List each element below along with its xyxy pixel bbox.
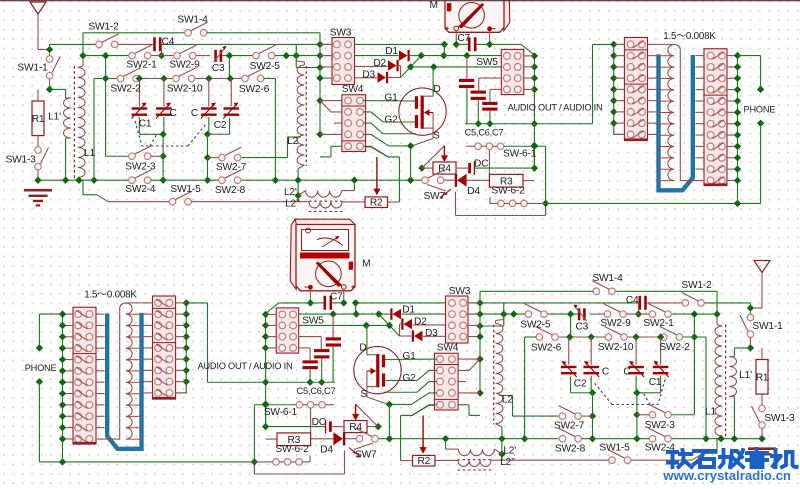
svg-text:SW1-4: SW1-4 <box>177 15 208 26</box>
svg-text:PHONE: PHONE <box>25 363 57 373</box>
svg-text:SW2-3: SW2-3 <box>125 162 156 173</box>
svg-text:L1': L1' <box>739 370 752 381</box>
svg-text:L2: L2 <box>502 394 513 405</box>
svg-text:SW1-5: SW1-5 <box>599 443 630 454</box>
svg-text:SW3: SW3 <box>330 27 352 38</box>
svg-text:SW1-1: SW1-1 <box>17 62 48 73</box>
svg-text:C2: C2 <box>214 120 227 131</box>
svg-text:SW1-3: SW1-3 <box>764 413 795 424</box>
svg-text:SW2-10: SW2-10 <box>167 83 203 94</box>
svg-text:SW2-8: SW2-8 <box>215 185 246 196</box>
svg-text:SW2-4: SW2-4 <box>125 184 156 195</box>
svg-text:D1: D1 <box>385 46 398 57</box>
svg-text:DC: DC <box>474 158 488 169</box>
svg-text:G1: G1 <box>402 351 416 362</box>
svg-text:SW-6-2: SW-6-2 <box>275 444 309 455</box>
svg-text:G2: G2 <box>384 115 398 126</box>
svg-text:C7: C7 <box>457 33 470 44</box>
svg-text:C2: C2 <box>574 378 587 389</box>
svg-text:C7: C7 <box>330 292 343 303</box>
svg-text:L1: L1 <box>84 148 95 159</box>
svg-text:SW2-7: SW2-7 <box>216 162 247 173</box>
svg-text:L1': L1' <box>48 112 61 123</box>
svg-text:C5,C6,C7: C5,C6,C7 <box>297 386 336 396</box>
svg-text:D2: D2 <box>414 317 427 328</box>
svg-text:SW2-10: SW2-10 <box>598 342 634 353</box>
svg-text:D2: D2 <box>373 58 386 69</box>
svg-text:SW1-2: SW1-2 <box>681 280 712 291</box>
svg-text:D3: D3 <box>425 328 438 339</box>
svg-text:C3: C3 <box>212 63 225 74</box>
svg-text:L2: L2 <box>287 136 298 147</box>
svg-text:SW1-3: SW1-3 <box>6 155 37 166</box>
svg-text:AUDIO OUT / AUDIO IN: AUDIO OUT / AUDIO IN <box>508 102 603 112</box>
svg-text:G2: G2 <box>402 373 416 384</box>
svg-text:SW4: SW4 <box>437 343 459 354</box>
svg-text:C3: C3 <box>575 322 588 333</box>
svg-text:S: S <box>360 389 367 400</box>
svg-text:L1: L1 <box>705 407 716 418</box>
svg-text:SW2-2: SW2-2 <box>110 83 141 94</box>
svg-text:R1: R1 <box>32 114 45 125</box>
svg-text:SW2-7: SW2-7 <box>554 420 585 431</box>
svg-text:M: M <box>362 259 370 270</box>
svg-text:SW2-9: SW2-9 <box>600 318 631 329</box>
svg-text:C: C <box>623 366 630 377</box>
svg-text:C: C <box>191 108 198 119</box>
svg-text:SW1-1: SW1-1 <box>752 321 783 332</box>
svg-text:C1: C1 <box>649 377 662 388</box>
svg-text:R4: R4 <box>438 163 451 174</box>
svg-text:R4: R4 <box>349 422 362 433</box>
svg-text:S: S <box>433 130 440 141</box>
svg-text:SW2-5: SW2-5 <box>250 61 281 72</box>
svg-text:SW2-6: SW2-6 <box>239 84 270 95</box>
svg-text:L2': L2' <box>503 446 516 457</box>
svg-text:AUDIO OUT / AUDIO IN: AUDIO OUT / AUDIO IN <box>198 361 293 371</box>
svg-text:D4: D4 <box>467 186 480 197</box>
svg-text:1.5～0.008K: 1.5～0.008K <box>84 290 137 301</box>
svg-text:SW1-2: SW1-2 <box>88 22 119 33</box>
svg-text:C1: C1 <box>139 119 152 130</box>
svg-text:L2’’: L2’’ <box>500 457 515 468</box>
svg-text:SW2-1: SW2-1 <box>126 60 157 71</box>
svg-text:SW-6-1: SW-6-1 <box>503 148 537 159</box>
svg-text:SW2-6: SW2-6 <box>531 342 562 353</box>
svg-text:C: C <box>170 108 177 119</box>
svg-text:SW7: SW7 <box>423 191 445 202</box>
svg-text:SW2-3: SW2-3 <box>645 420 676 431</box>
svg-text:SW7: SW7 <box>355 449 377 460</box>
svg-text:1.5～0.008K: 1.5～0.008K <box>663 31 716 42</box>
svg-text:C4: C4 <box>161 36 174 47</box>
svg-text:SW3: SW3 <box>449 286 471 297</box>
svg-text:D: D <box>359 343 366 354</box>
svg-text:D3: D3 <box>362 69 375 80</box>
svg-text:SW2-2: SW2-2 <box>659 342 690 353</box>
svg-text:PHONE: PHONE <box>744 105 776 115</box>
svg-text:SW1-4: SW1-4 <box>592 273 623 284</box>
svg-text:SW2-1: SW2-1 <box>643 318 674 329</box>
svg-text:M: M <box>430 0 438 11</box>
svg-text:SW5: SW5 <box>476 57 498 68</box>
svg-text:DC: DC <box>312 417 326 428</box>
svg-text:R2: R2 <box>370 198 383 209</box>
svg-text:R1: R1 <box>756 373 769 384</box>
svg-text:SW2-5: SW2-5 <box>520 319 551 330</box>
svg-text:G1: G1 <box>384 92 398 103</box>
svg-text:SW2-9: SW2-9 <box>169 60 200 71</box>
svg-text:SW-6-1: SW-6-1 <box>264 407 298 418</box>
svg-text:SW-6-2: SW-6-2 <box>491 186 525 197</box>
svg-text:SW2-8: SW2-8 <box>555 444 586 455</box>
svg-text:SW5: SW5 <box>302 315 324 326</box>
svg-text:SW1-5: SW1-5 <box>170 184 201 195</box>
svg-text:D1: D1 <box>402 305 415 316</box>
svg-text:D: D <box>433 84 440 95</box>
svg-text:C: C <box>602 366 609 377</box>
svg-text:C4: C4 <box>626 295 639 306</box>
svg-text:L2': L2' <box>284 187 297 198</box>
svg-text:C5,C6,C7: C5,C6,C7 <box>465 127 504 137</box>
svg-text:L2’’: L2’’ <box>285 199 300 210</box>
svg-text:SW4: SW4 <box>342 84 364 95</box>
svg-text:R2: R2 <box>417 456 430 467</box>
svg-text:D4: D4 <box>320 444 333 455</box>
svg-text:www.crystalradio.cn: www.crystalradio.cn <box>662 468 791 483</box>
